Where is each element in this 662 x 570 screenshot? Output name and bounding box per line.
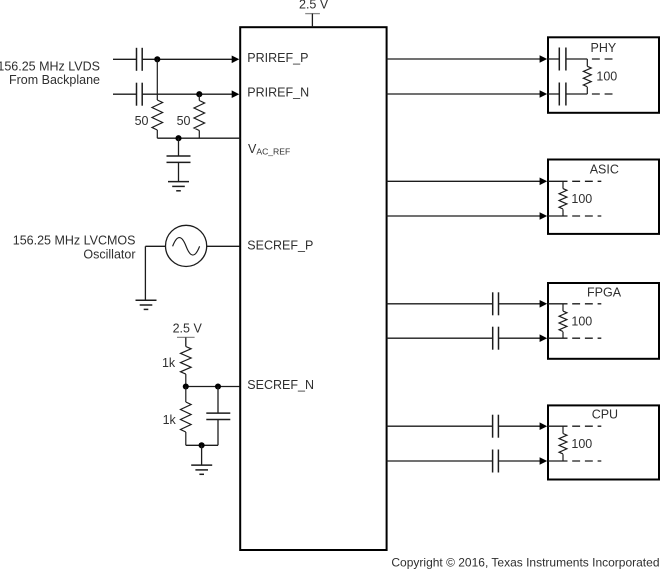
wire FPGA line 2 right [499, 337, 541, 339]
svg-text:PHY: PHY [591, 41, 617, 55]
resistor R4 1k [181, 387, 192, 446]
wire from 2.5 V rail to U1 top [311, 14, 313, 28]
oscillator U2 (circle with sine) [166, 225, 207, 266]
node dot bias divider [183, 383, 189, 389]
wire PHY line 1 to R [566, 58, 587, 60]
power rail bar (top 2.5 V) [305, 13, 320, 15]
wire U1 to ASIC line 1 [387, 180, 541, 182]
wire LVDS line N left segment [113, 93, 137, 95]
wire ASIC line 2 inside [548, 215, 568, 217]
wire oscillator left lead [145, 245, 165, 247]
svg-text:CPU: CPU [592, 408, 618, 422]
node dot VAC_REF [175, 135, 181, 141]
wire FPGA line 1 inside [548, 303, 568, 305]
arrow into PHY line 1 [540, 55, 548, 63]
dashed stub FPGA line 2 [572, 337, 601, 339]
svg-text:156.25 MHz LVCMOS: 156.25 MHz LVCMOS [13, 234, 136, 248]
resistor RT4 100 (CPU) [559, 426, 567, 461]
ASIC block [548, 160, 659, 234]
wire common node to VAC_REF pin [157, 137, 240, 139]
wire U1 to FPGA line 1 left [387, 303, 493, 305]
wire bias rail to R3 [185, 337, 187, 346]
svg-text:100: 100 [571, 314, 592, 328]
capacitor C10 (PHY line 2) [559, 83, 566, 106]
svg-text:50: 50 [135, 114, 149, 128]
arrow into PRIREF_N [232, 90, 240, 98]
wire ASIC line 1 inside [548, 180, 568, 182]
svg-text:FPGA: FPGA [587, 286, 622, 300]
wire PHY line 1 inside [548, 58, 559, 60]
resistor RT1 100 (PHY) [583, 59, 591, 94]
wire U1 to ASIC line 2 [387, 215, 541, 217]
svg-text:From Backplane: From Backplane [9, 73, 100, 87]
svg-text:PRIREF_P: PRIREF_P [247, 51, 308, 65]
capacitor C7 (CPU line 1) [493, 415, 499, 438]
resistor R3 1k [181, 347, 192, 387]
dashed stub CPU line 2 [572, 460, 601, 462]
wire CPU line 1 inside [548, 425, 568, 427]
PHY block [548, 37, 659, 113]
arrow into ASIC line 2 [540, 212, 548, 220]
wire U1 to PHY line 1 [387, 58, 541, 60]
FPGA block [548, 283, 659, 359]
node dot on PRIREF_N line [196, 91, 202, 97]
svg-text:100: 100 [571, 437, 592, 451]
wire bias node to SECREF_N pin [186, 386, 240, 388]
wire U1 to FPGA line 2 left [387, 337, 493, 339]
wire LVDS line N right segment [142, 93, 232, 95]
arrow into CPU line 1 [540, 422, 548, 430]
wire FPGA line 2 inside [548, 337, 568, 339]
svg-text:1k: 1k [163, 413, 177, 427]
capacitor C6 (FPGA line 2) [493, 327, 499, 350]
arrow into PRIREF_P [232, 56, 240, 64]
wire LVDS line P left segment [113, 58, 137, 60]
wire U1 to CPU line 2 left [387, 460, 493, 462]
ground (VAC_REF cap) [168, 182, 189, 191]
arrow into PHY line 2 [540, 90, 548, 98]
dashed stub PHY line 1 [592, 58, 617, 60]
capacitor C5 (FPGA line 1) [493, 292, 499, 315]
svg-text:ASIC: ASIC [590, 163, 619, 177]
svg-text:100: 100 [571, 192, 592, 206]
resistor RT3 100 (FPGA) [559, 304, 567, 338]
svg-text:Copyright © 2016, Texas Instru: Copyright © 2016, Texas Instruments Inco… [391, 555, 659, 569]
wire U1 to CPU line 1 left [387, 425, 493, 427]
CPU block [548, 405, 659, 479]
arrow into CPU line 2 [540, 457, 548, 465]
resistor R1 50 [152, 59, 163, 138]
ground (bias network) [191, 465, 212, 474]
IC block U1 [240, 27, 386, 550]
dashed stub CPU line 1 [572, 425, 601, 427]
capacitor C3 (VAC_REF bypass) [167, 138, 191, 181]
wire PHY line 2 to R [566, 93, 587, 95]
dashed stub PHY line 2 [592, 93, 617, 95]
wire CPU line 1 right [498, 425, 540, 427]
wire oscillator to SECREF_P [207, 245, 240, 247]
wire LVDS line P right segment [142, 58, 232, 60]
dashed stub FPGA line 1 [572, 303, 601, 305]
svg-text:Oscillator: Oscillator [83, 248, 135, 262]
capacitor C8 (CPU line 2) [493, 450, 499, 473]
svg-text:2.5 V: 2.5 V [299, 0, 329, 12]
arrow into FPGA line 2 [540, 334, 548, 342]
wire bias bottom rail [186, 444, 218, 446]
arrow into ASIC line 1 [540, 178, 548, 186]
wire oscillator ground drop [144, 246, 146, 300]
ground (oscillator) [136, 300, 157, 309]
wire PHY line 2 inside [548, 93, 559, 95]
svg-text:SECREF_P: SECREF_P [247, 239, 313, 253]
wire CPU line 2 right [498, 460, 540, 462]
resistor R2 50 [194, 94, 205, 138]
svg-text:100: 100 [596, 70, 617, 84]
wire bias ground drop [201, 445, 203, 465]
capacitor C4 (bias filter) [206, 387, 230, 446]
svg-text:SECREF_N: SECREF_N [247, 378, 314, 392]
node dot on PRIREF_P line [154, 56, 160, 62]
capacitor C2 (PRIREF_N coupling) [137, 83, 143, 106]
dashed stub ASIC line 1 [572, 180, 601, 182]
node dot bias ground [199, 442, 205, 448]
wire CPU line 2 inside [548, 460, 568, 462]
capacitor C9 (PHY line 1) [559, 48, 566, 71]
arrow into FPGA line 1 [540, 300, 548, 308]
resistor RT2 100 (ASIC) [559, 181, 567, 216]
power rail bar (bias 2.5 V) [177, 336, 195, 338]
svg-text:156.25 MHz LVDS: 156.25 MHz LVDS [0, 59, 100, 73]
svg-text:1k: 1k [162, 356, 176, 370]
svg-text:2.5 V: 2.5 V [173, 322, 203, 336]
node dot bias cap top [215, 383, 221, 389]
wire U1 to PHY line 2 [387, 93, 541, 95]
svg-text:PRIREF_N: PRIREF_N [247, 86, 309, 100]
capacitor C1 (PRIREF_P coupling) [137, 48, 143, 71]
svg-text:50: 50 [177, 114, 191, 128]
dashed stub ASIC line 2 [572, 215, 601, 217]
wire FPGA line 1 right [499, 303, 541, 305]
